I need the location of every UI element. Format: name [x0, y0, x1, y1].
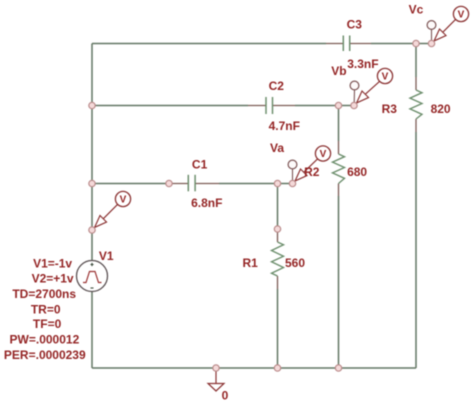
probe at node Vc: [434, 6, 469, 41]
svg-text:C3: C3: [347, 18, 363, 32]
wire right rail upper (above R3): [415, 44, 417, 78]
resistor R3: [410, 77, 422, 132]
svg-text:TF=0: TF=0: [33, 317, 62, 331]
junction C2 row / R2 branch: [335, 102, 341, 108]
wire junction-to-Va-pin stub: [278, 183, 293, 185]
junction bottom rail / R2: [335, 365, 341, 371]
svg-text:R2: R2: [304, 165, 320, 179]
junction left rail / Va row: [89, 180, 95, 186]
pin node Va: [289, 180, 295, 186]
wire top rail y=43.5 right part: [371, 43, 416, 45]
wire R1 branch lower: [277, 289, 279, 368]
capacitor C3: [326, 36, 371, 52]
svg-text:680: 680: [347, 165, 367, 179]
wire bottom rail y=367.5: [92, 367, 416, 369]
capacitor C1: [172, 175, 219, 192]
pin C1 left: [166, 180, 172, 186]
voltage source V1: [77, 261, 108, 292]
svg-text:V: V: [320, 149, 327, 160]
svg-text:R3: R3: [382, 102, 398, 116]
svg-text:Vb: Vb: [331, 64, 346, 78]
pin R1 top: [274, 226, 280, 232]
wire R1 branch upper: [277, 184, 279, 230]
svg-text:6.8nF: 6.8nF: [191, 196, 222, 210]
pin node Vc: [428, 40, 434, 46]
svg-text:560: 560: [285, 256, 305, 270]
svg-text:C1: C1: [192, 157, 208, 171]
svg-text:0: 0: [222, 389, 229, 403]
wire C2 row right part: [295, 105, 339, 107]
junction bottom rail / R1: [274, 365, 280, 371]
junction Va row / R1 branch: [274, 180, 280, 186]
wire Va row left part: [92, 183, 169, 185]
junction bottom rail / ground: [213, 365, 219, 371]
probe at node Va: [295, 146, 331, 181]
svg-text:PW=.000012: PW=.000012: [10, 332, 80, 346]
capacitor C2: [248, 97, 295, 114]
wire top rail y=43.5 left part: [92, 43, 326, 45]
wire R2 branch upper: [338, 106, 340, 142]
net connector Vc: [427, 21, 436, 40]
svg-text:820: 820: [431, 102, 451, 116]
svg-text:C2: C2: [269, 79, 285, 93]
svg-text:V2=+1v: V2=+1v: [32, 272, 74, 286]
wire R2 branch lower: [338, 196, 340, 368]
probe on V1 node (left rail): [95, 191, 131, 227]
svg-text:PER=.0000239: PER=.0000239: [4, 348, 86, 362]
junction top rail / right rail: [413, 40, 419, 46]
svg-text:Vc: Vc: [409, 3, 424, 17]
resistor R2: [333, 141, 345, 196]
net connector Va: [288, 160, 297, 180]
wire Va row right part: [219, 183, 278, 185]
probe at node Vb: [357, 68, 393, 103]
wire right rail lower (below R3): [415, 132, 417, 368]
svg-text:TR=0: TR=0: [31, 303, 61, 317]
svg-text:V: V: [382, 72, 389, 83]
ground: [208, 372, 224, 392]
svg-text:3.3nF: 3.3nF: [347, 57, 378, 71]
wire junction-to-Vb-pin stub: [339, 105, 355, 107]
svg-text:4.7nF: 4.7nF: [269, 119, 300, 133]
svg-text:V: V: [458, 10, 465, 21]
svg-text:V1=-1v: V1=-1v: [33, 257, 72, 271]
resistor R1: [272, 233, 284, 290]
svg-text:V: V: [120, 195, 127, 206]
pin node Vb: [351, 102, 357, 108]
net connector Vb: [350, 81, 359, 102]
junction left rail / C2 row: [89, 102, 95, 108]
pin probe on left rail: [89, 227, 95, 233]
wire junction-to-Vc-pin stub: [416, 43, 432, 45]
wire left rail lower: [91, 292, 93, 369]
svg-text:TD=2700ns: TD=2700ns: [12, 287, 76, 301]
wire left rail upper: [91, 44, 93, 261]
svg-text:R1: R1: [243, 256, 259, 270]
wire C2 row left part: [92, 105, 248, 107]
svg-text:V1: V1: [99, 249, 114, 263]
svg-text:Va: Va: [270, 141, 284, 155]
